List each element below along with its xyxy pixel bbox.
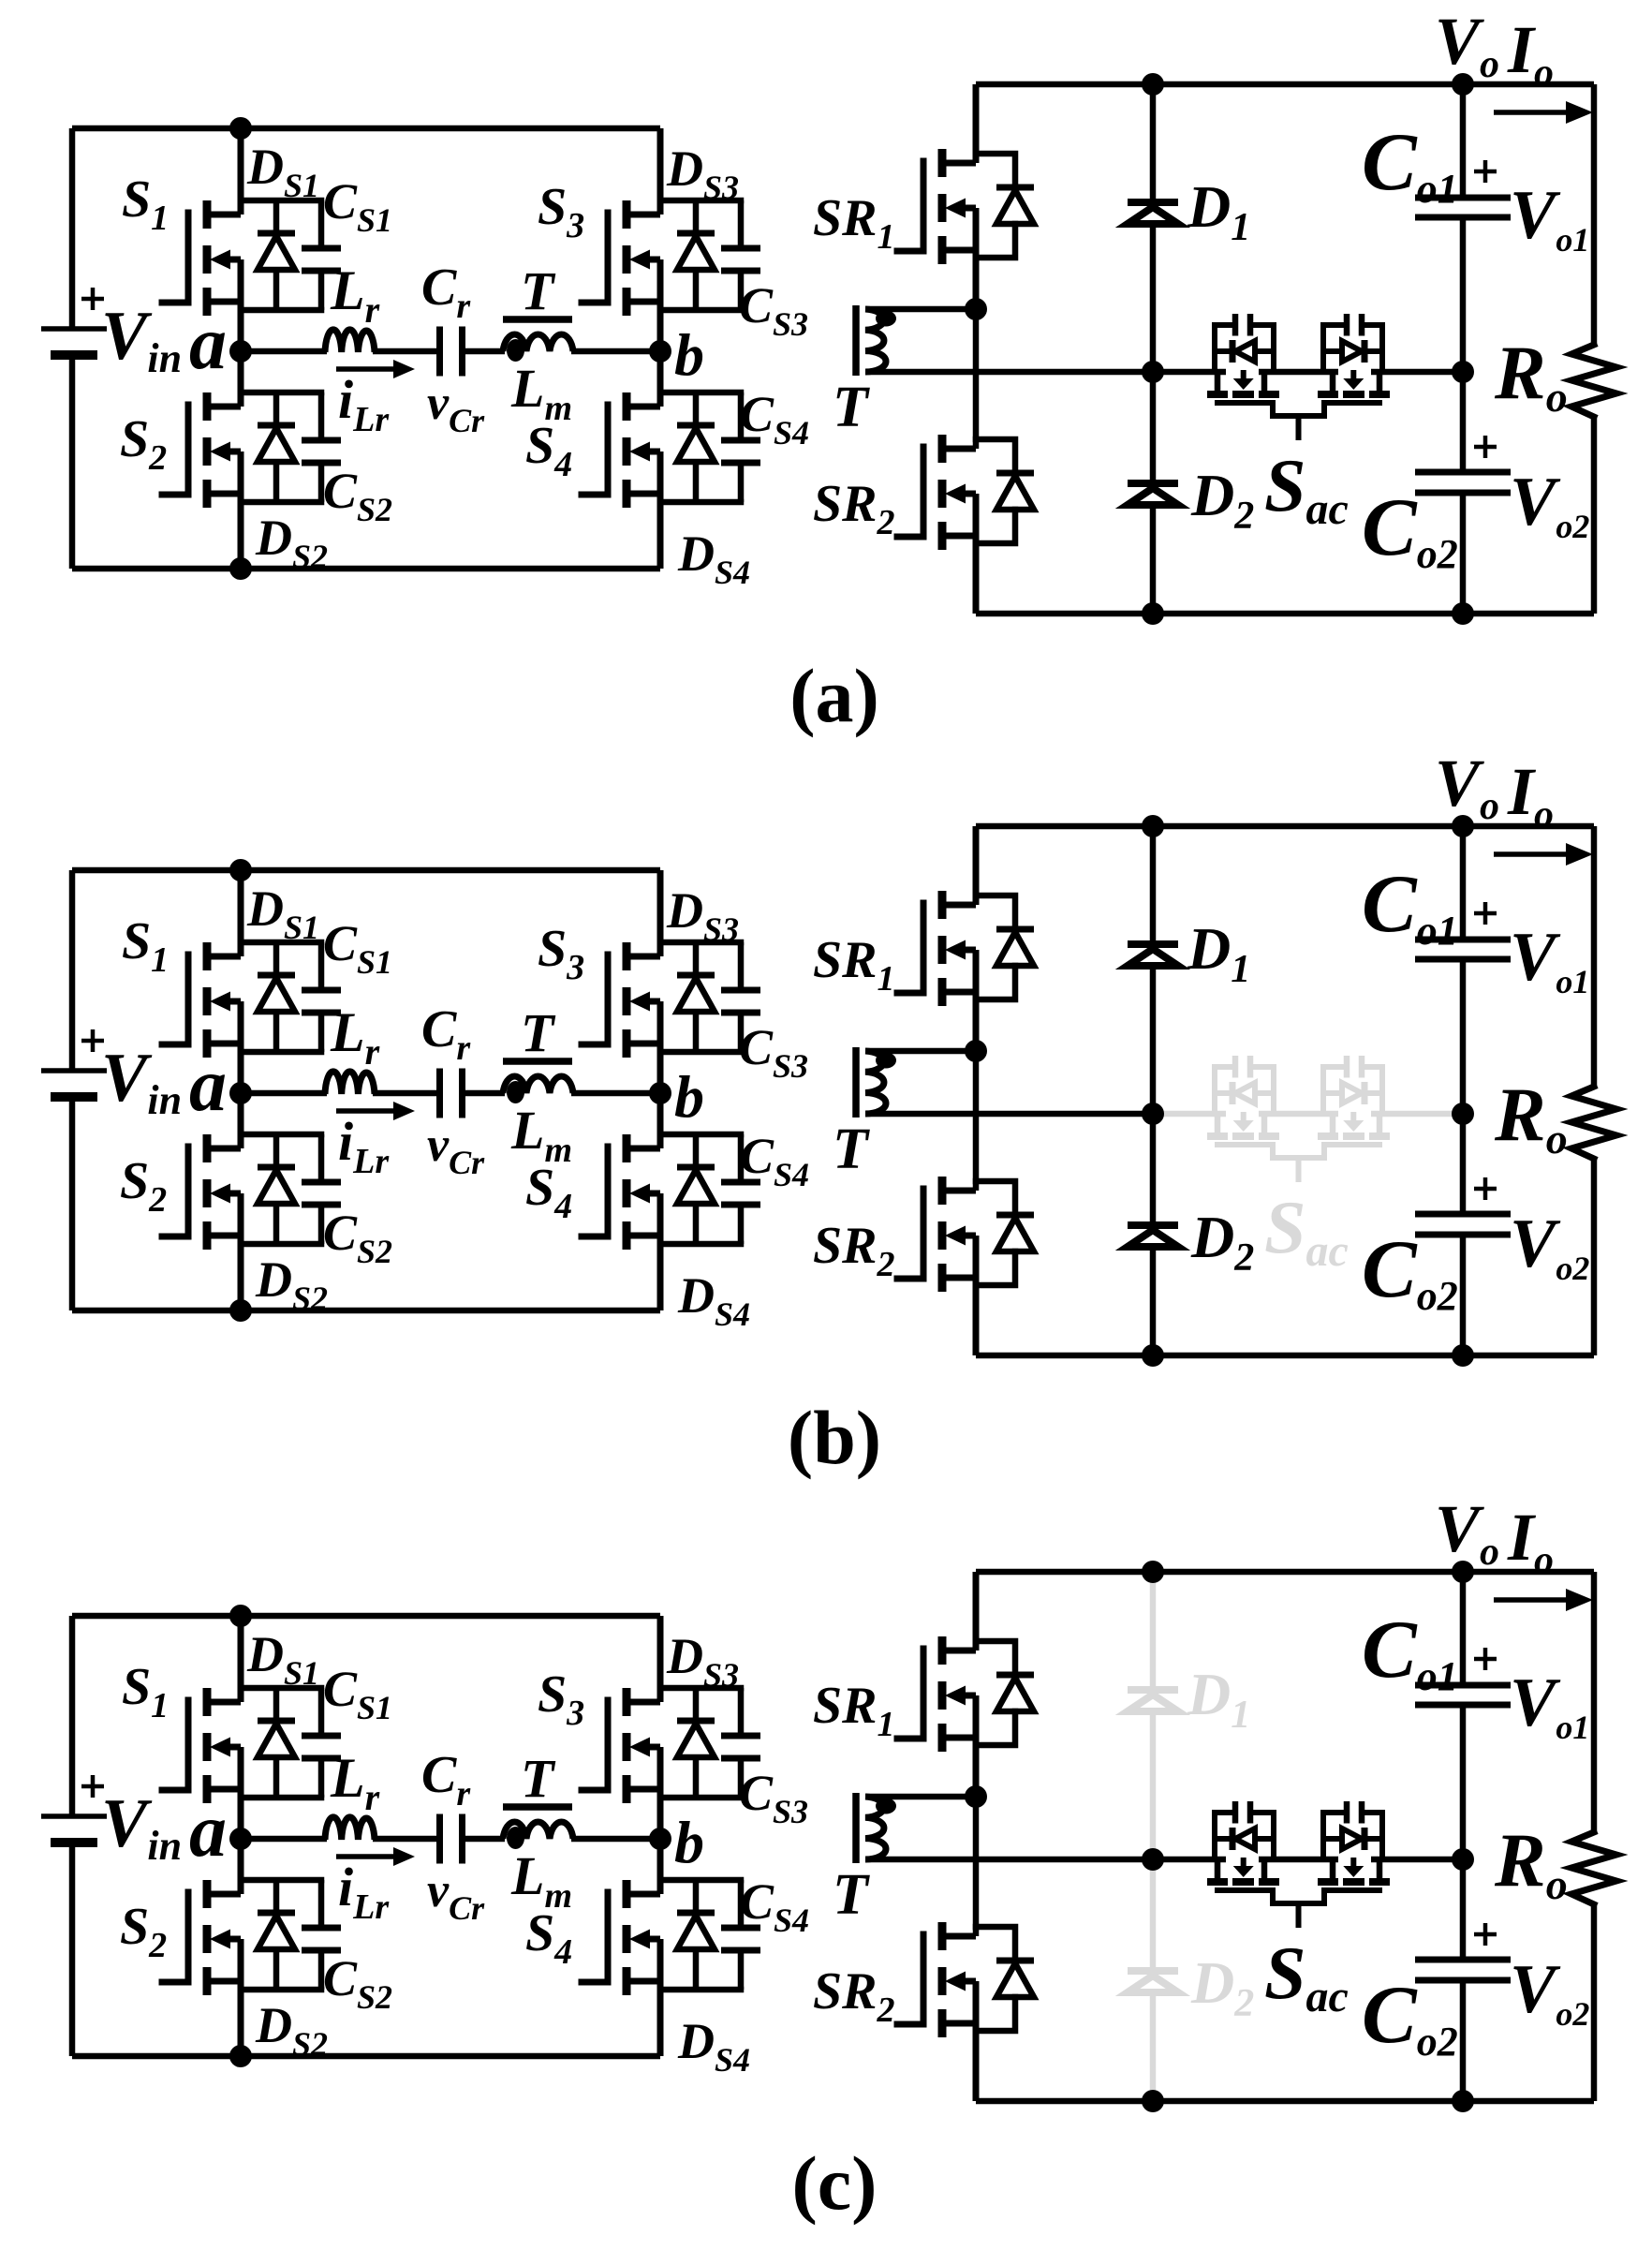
diode body of SR2 bbox=[976, 1927, 1015, 1961]
wire load bottom bbox=[1591, 1159, 1598, 1355]
node top rail diode junction bbox=[1142, 73, 1164, 96]
diode DS4 / capacitor CS4 top wire bbox=[660, 390, 741, 396]
diode D1 bbox=[1128, 199, 1178, 206]
node b bbox=[649, 1828, 671, 1850]
wire Co1 to midpoint bbox=[1460, 1705, 1467, 1960]
diode DS2 / capacitor CS2 bottom wire bbox=[241, 1987, 321, 1993]
diode D1 bbox=[1128, 940, 1178, 948]
wire SR1 source to winding bbox=[973, 1695, 980, 1797]
arrow Io bbox=[1494, 1597, 1569, 1603]
wire S2 source to bottom rail bbox=[238, 1939, 244, 2056]
inductor Lm magnetizing bbox=[503, 1076, 573, 1093]
node bottom rail diode junction bbox=[1142, 1344, 1164, 1367]
capacitor CS2 bbox=[318, 392, 325, 438]
plus sign Vo2 polarity bbox=[1474, 436, 1497, 458]
transistor S1 body arrow bbox=[210, 250, 230, 270]
transistor S4 gate lead bbox=[582, 405, 608, 495]
wire battery positive lead bbox=[69, 128, 76, 329]
wire load top bbox=[1591, 1572, 1598, 1832]
wire battery positive lead bbox=[69, 870, 76, 1071]
inductor Lr bbox=[325, 330, 375, 352]
node mid rail diode junction bbox=[1142, 1848, 1164, 1871]
transistor S1 drain lead bbox=[205, 954, 241, 960]
node top rail diode junction bbox=[1142, 815, 1164, 837]
wire primary top rail bbox=[72, 1613, 660, 1620]
transistor S4 source lead bbox=[625, 1233, 660, 1239]
transistor SR2 source lead bbox=[940, 1275, 976, 1281]
transistor SR2 drain lead bbox=[940, 1933, 976, 1940]
wire battery negative lead bbox=[69, 1843, 76, 2056]
diode DS1 / capacitor CS1 bottom wire bbox=[241, 307, 321, 314]
transistor SR2 channel bars bbox=[938, 1922, 947, 1950]
transistor S1 drain lead bbox=[205, 212, 241, 218]
wire S1 source to node a bbox=[238, 1747, 244, 1839]
wire node a to S2 drain bbox=[238, 1839, 244, 1894]
wire winding junction to SR2 drain bbox=[973, 1797, 980, 1936]
transistor S4 gate lead bbox=[582, 1147, 608, 1236]
wire secondary top rail bbox=[976, 81, 1594, 88]
wire S3 source to node b bbox=[657, 1001, 664, 1093]
inductor Lr bbox=[325, 1817, 375, 1840]
wire Co2 to bottom rail bbox=[1460, 1235, 1467, 1355]
transistor SR1 channel bars bbox=[938, 1636, 947, 1665]
diode DS2 / capacitor CS2 top wire bbox=[241, 390, 321, 396]
arrow iLr bbox=[336, 1854, 400, 1859]
wire battery negative lead bbox=[69, 355, 76, 569]
capacitor CS3 bbox=[738, 1688, 745, 1734]
wire S3 source to node b bbox=[657, 1747, 664, 1839]
transistor SR2 channel bars bbox=[938, 1177, 947, 1205]
battery Vin bbox=[41, 326, 107, 332]
wire Sac to output midpoint bbox=[1371, 1111, 1463, 1118]
diode DS4 bbox=[693, 1880, 700, 1913]
diode DS4 bbox=[693, 1134, 700, 1167]
wire diode junction to Sac bbox=[1153, 1857, 1226, 1863]
wire S2 source to bottom rail bbox=[238, 1193, 244, 1310]
wire SR1 drain bbox=[973, 84, 980, 163]
transistor S4 channel bars bbox=[623, 1880, 631, 1908]
transistor S1 body arrow bbox=[210, 992, 230, 1012]
resistor Ro bbox=[1571, 1832, 1616, 1904]
wire winding junction to SR2 drain bbox=[973, 309, 980, 449]
diode D1 bbox=[1128, 1686, 1178, 1694]
transistor S3 source lead bbox=[625, 299, 660, 305]
transistor SR2 channel bars bbox=[938, 435, 947, 463]
diode DS4 / capacitor CS4 bottom wire bbox=[660, 1241, 741, 1248]
wire secondary bottom rail bbox=[976, 2098, 1594, 2105]
wire S4 source to bottom rail bbox=[657, 1193, 664, 1310]
wire load top bbox=[1591, 826, 1598, 1087]
transistor SR1 source lead bbox=[940, 989, 976, 996]
plus sign Vin polarity bbox=[81, 1029, 104, 1052]
wire node a to S2 drain bbox=[238, 351, 244, 407]
transistor S4 channel bars bbox=[623, 1134, 631, 1162]
plus sign Vo1 polarity bbox=[1474, 902, 1497, 925]
transistor S4 drain lead bbox=[625, 1146, 660, 1152]
svg-text:a: a bbox=[189, 1790, 227, 1873]
diode DS4 / capacitor CS4 top wire bbox=[660, 1132, 741, 1138]
wire load top bbox=[1591, 84, 1598, 345]
transistor S4 source lead bbox=[625, 1978, 660, 1985]
inductor Lm magnetizing bbox=[503, 334, 573, 351]
capacitor Co1 bbox=[1415, 195, 1511, 201]
wire Sac to output midpoint bbox=[1371, 369, 1463, 376]
capacitor Cr bbox=[436, 1814, 443, 1864]
transistor S2 drain lead bbox=[205, 1891, 241, 1898]
plus sign Vin polarity bbox=[81, 1775, 104, 1798]
wire SR1 source to winding bbox=[973, 208, 980, 309]
transformer T primary core bar bbox=[503, 1803, 572, 1811]
node mid rail diode junction bbox=[1142, 1103, 1164, 1125]
wire secondary top rail bbox=[976, 823, 1594, 830]
capacitor Cr bbox=[436, 327, 443, 377]
capacitor CS1 bbox=[318, 1688, 325, 1734]
transistor SR1 body arrow bbox=[945, 1686, 966, 1706]
wire SR1 drain bbox=[973, 826, 980, 905]
node top rail diode junction bbox=[1142, 1561, 1164, 1583]
wire SR1 drain bbox=[973, 1572, 980, 1650]
wire Lm to node b bbox=[571, 1836, 660, 1843]
svg-text:a: a bbox=[189, 1044, 227, 1127]
transistor S3 channel bars bbox=[623, 200, 631, 229]
transistor SR2 body arrow bbox=[945, 1226, 966, 1246]
diode DS2 / capacitor CS2 bottom wire bbox=[241, 1241, 321, 1248]
wire diode leg lower bbox=[1150, 1247, 1157, 1355]
svg-text:b: b bbox=[674, 321, 704, 388]
wire secondary winding top lead bbox=[865, 1048, 976, 1055]
capacitor Co1 bbox=[1415, 1682, 1511, 1689]
diode DS1 / capacitor CS1 bottom wire bbox=[241, 1795, 321, 1801]
node b bbox=[649, 1082, 671, 1104]
node mid rail output junction bbox=[1452, 361, 1474, 383]
diode body of SR1 bbox=[976, 154, 1015, 187]
transistor SR1 gate lead bbox=[897, 903, 923, 993]
transistor S2 gate lead bbox=[162, 405, 188, 495]
transistor S3 gate lead bbox=[582, 1700, 608, 1790]
wire node a to S2 drain bbox=[238, 1093, 244, 1148]
wire S2 source to bottom rail bbox=[238, 451, 244, 569]
diode DS3 / capacitor CS3 top wire bbox=[660, 198, 741, 204]
transistor S3 body arrow bbox=[629, 250, 650, 270]
wire Sac interconnect bbox=[1259, 1857, 1338, 1863]
diode DS2 / capacitor CS2 top wire bbox=[241, 1132, 321, 1138]
transformer T primary core bar bbox=[503, 316, 572, 323]
wire Co1 top lead bbox=[1460, 84, 1467, 198]
transistor S3 channel bars bbox=[623, 942, 631, 970]
capacitor CS3 bbox=[738, 942, 745, 988]
wire secondary winding bottom to diode junction bbox=[865, 1857, 1153, 1863]
switch Sac right MOSFET bbox=[1364, 1067, 1382, 1114]
svg-text:a: a bbox=[189, 303, 227, 385]
capacitor CS2 bbox=[318, 1134, 325, 1180]
svg-text:T: T bbox=[521, 1002, 556, 1063]
wire node a to Lr bbox=[241, 1090, 327, 1097]
wire S1 drain bbox=[238, 1616, 244, 1702]
transistor S3 channel bars bbox=[623, 1688, 631, 1716]
wire S3 drain bbox=[657, 870, 664, 956]
transistor SR1 channel bars bbox=[938, 149, 947, 177]
battery Vin bbox=[41, 1813, 107, 1819]
wire secondary winding bottom to diode junction bbox=[865, 1111, 1153, 1118]
diode DS4 / capacitor CS4 top wire bbox=[660, 1877, 741, 1884]
transistor S1 channel bars bbox=[203, 942, 212, 970]
transistor S2 source lead bbox=[205, 491, 241, 497]
wire Cr to transformer bbox=[465, 348, 505, 355]
transistor S1 drain lead bbox=[205, 1699, 241, 1706]
transistor SR2 drain lead bbox=[940, 1188, 976, 1194]
transistor S3 drain lead bbox=[625, 1699, 660, 1706]
arrow Io bbox=[1494, 110, 1569, 115]
wire Lm to node b bbox=[571, 348, 660, 355]
node bottom rail output junction bbox=[1452, 2090, 1474, 2112]
wire diode leg upper bbox=[1150, 84, 1157, 202]
diode DS3 / capacitor CS3 bottom wire bbox=[660, 1795, 741, 1801]
wire Lr to Cr bbox=[373, 348, 437, 355]
capacitor CS4 bbox=[738, 1880, 745, 1926]
switch Sac gate stub bbox=[1296, 1903, 1302, 1928]
transistor SR1 gate lead bbox=[897, 161, 923, 251]
diode DS3 / capacitor CS3 bottom wire bbox=[660, 1049, 741, 1056]
diode DS3 / capacitor CS3 top wire bbox=[660, 1685, 741, 1692]
node b bbox=[649, 340, 671, 363]
node a bbox=[229, 1082, 252, 1104]
arrow iLr bbox=[336, 1108, 400, 1114]
transistor S2 drain lead bbox=[205, 404, 241, 410]
svg-text:T: T bbox=[833, 1863, 870, 1927]
wire winding junction to SR2 drain bbox=[973, 1051, 980, 1191]
diode DS2 bbox=[273, 392, 280, 425]
transistor SR1 body arrow bbox=[945, 199, 966, 218]
plus sign Vo1 polarity bbox=[1474, 1648, 1497, 1670]
transistor SR2 drain lead bbox=[940, 446, 976, 452]
transistor S4 source lead bbox=[625, 491, 660, 497]
wire SR2 source to bottom rail bbox=[973, 1236, 980, 1355]
switch Sac right MOSFET bbox=[1364, 325, 1382, 372]
plus sign Vin polarity bbox=[81, 288, 104, 310]
transistor SR1 source lead bbox=[940, 1735, 976, 1741]
wire SR1 source to winding bbox=[973, 950, 980, 1051]
svg-text:b: b bbox=[674, 1063, 704, 1130]
wire secondary winding top lead bbox=[865, 1794, 976, 1800]
diode DS3 bbox=[693, 1688, 700, 1721]
wire secondary bottom rail bbox=[976, 611, 1594, 617]
transistor S1 channel bars bbox=[203, 1688, 212, 1716]
wire battery positive lead bbox=[69, 1616, 76, 1816]
transistor S2 gate lead bbox=[162, 1147, 188, 1236]
wire diode leg lower bbox=[1150, 1992, 1157, 2101]
transistor S1 gate lead bbox=[162, 955, 188, 1044]
capacitor CS2 bbox=[318, 1880, 325, 1926]
node transformer primary polarity dot bbox=[507, 1081, 524, 1103]
wire Co2 to bottom rail bbox=[1460, 1980, 1467, 2101]
diode body of SR1 bbox=[976, 1641, 1015, 1675]
wire S3 source to node b bbox=[657, 259, 664, 351]
switch Sac right MOSFET bbox=[1364, 1813, 1382, 1859]
wire Sac to output midpoint bbox=[1371, 1857, 1463, 1863]
node primary top junction bbox=[229, 1605, 252, 1627]
wire node b to S4 drain bbox=[657, 1839, 664, 1894]
wire S3 drain bbox=[657, 1616, 664, 1702]
transistor S2 gate lead bbox=[162, 1892, 188, 1982]
switch Sac left MOSFET bbox=[1215, 1813, 1233, 1859]
arrow iLr bbox=[336, 366, 400, 372]
transistor S1 gate lead bbox=[162, 213, 188, 303]
diode DS3 bbox=[693, 200, 700, 233]
transistor SR2 source lead bbox=[940, 533, 976, 540]
svg-text:T: T bbox=[521, 1748, 556, 1809]
node a bbox=[229, 340, 252, 363]
wire load bottom bbox=[1591, 1904, 1598, 2101]
transistor S1 source lead bbox=[205, 1041, 241, 1047]
wire Co2 to bottom rail bbox=[1460, 493, 1467, 614]
wire SR2 source to bottom rail bbox=[973, 494, 980, 614]
capacitor CS3 bbox=[738, 200, 745, 246]
transistor SR1 drain lead bbox=[940, 902, 976, 909]
transformer T secondary core bar bbox=[852, 305, 860, 376]
transistor SR1 source lead bbox=[940, 247, 976, 254]
wire Sac interconnect bbox=[1259, 1111, 1338, 1118]
wire diode leg upper bbox=[1150, 826, 1157, 944]
transistor SR2 gate lead bbox=[897, 1189, 923, 1279]
svg-text:(c): (c) bbox=[791, 2140, 877, 2226]
node mid rail output junction bbox=[1452, 1103, 1474, 1125]
diode DS2 bbox=[273, 1880, 280, 1913]
transistor S4 body arrow bbox=[629, 1184, 650, 1204]
transistor S4 channel bars bbox=[623, 392, 631, 421]
transformer T secondary core bar bbox=[852, 1047, 860, 1118]
svg-text:T: T bbox=[833, 376, 870, 439]
diode DS2 / capacitor CS2 bottom wire bbox=[241, 499, 321, 506]
transistor SR2 gate lead bbox=[897, 1934, 923, 2024]
transistor S4 body arrow bbox=[629, 1930, 650, 1949]
transistor SR2 body arrow bbox=[945, 1972, 966, 1991]
transformer T secondary core bar bbox=[852, 1793, 860, 1863]
diode DS3 / capacitor CS3 bottom wire bbox=[660, 307, 741, 314]
wire secondary winding top lead bbox=[865, 306, 976, 313]
diode DS3 / capacitor CS3 top wire bbox=[660, 940, 741, 946]
transistor SR1 drain lead bbox=[940, 160, 976, 167]
inductor Lr bbox=[325, 1072, 375, 1094]
transistor S3 source lead bbox=[625, 1041, 660, 1047]
transistor S2 source lead bbox=[205, 1233, 241, 1239]
transistor S1 source lead bbox=[205, 1786, 241, 1793]
wire node a to Lr bbox=[241, 348, 327, 355]
wire S4 source to bottom rail bbox=[657, 1939, 664, 2056]
node bottom rail diode junction bbox=[1142, 2090, 1164, 2112]
diode D2 bbox=[1128, 1221, 1178, 1229]
wire primary top rail bbox=[72, 126, 660, 132]
plus sign Vo1 polarity bbox=[1474, 160, 1497, 183]
transistor S3 source lead bbox=[625, 1786, 660, 1793]
wire node a to Lr bbox=[241, 1836, 327, 1843]
plus sign Vo2 polarity bbox=[1474, 1923, 1497, 1946]
transformer T primary core bar bbox=[503, 1058, 572, 1065]
wire node b to S4 drain bbox=[657, 1093, 664, 1148]
capacitor Co1 bbox=[1415, 937, 1511, 943]
capacitor Co2 bbox=[1415, 1957, 1511, 1963]
diode DS1 / capacitor CS1 top wire bbox=[241, 940, 321, 946]
node transformer primary polarity dot bbox=[507, 1827, 524, 1849]
diode DS1 bbox=[273, 1688, 280, 1721]
node bottom rail output junction bbox=[1452, 602, 1474, 625]
diode body of SR1 bbox=[976, 896, 1015, 929]
transistor SR2 gate lead bbox=[897, 447, 923, 537]
node primary top junction bbox=[229, 859, 252, 881]
diode body of SR2 bbox=[976, 439, 1015, 473]
diode D2 bbox=[1128, 1967, 1178, 1975]
wire diode junction to Sac bbox=[1153, 1111, 1226, 1118]
svg-text:T: T bbox=[521, 260, 556, 321]
capacitor CS1 bbox=[318, 942, 325, 988]
node secondary winding polarity dot bbox=[876, 1053, 896, 1069]
transistor S3 drain lead bbox=[625, 954, 660, 960]
switch Sac left MOSFET bbox=[1215, 1067, 1233, 1114]
svg-text:(b): (b) bbox=[788, 1395, 881, 1480]
wire diode junction to Sac bbox=[1153, 369, 1226, 376]
battery Vin bbox=[41, 1068, 107, 1073]
wire secondary top rail bbox=[976, 1569, 1594, 1576]
diode D2 bbox=[1128, 480, 1178, 487]
wire primary bottom rail bbox=[72, 2053, 660, 2060]
transistor S2 channel bars bbox=[203, 1134, 212, 1162]
diode DS4 bbox=[693, 392, 700, 425]
node winding top junction bbox=[965, 298, 987, 320]
svg-text:b: b bbox=[674, 1809, 704, 1875]
wire Co1 to midpoint bbox=[1460, 959, 1467, 1214]
wire S1 source to node a bbox=[238, 259, 244, 351]
capacitor CS1 bbox=[318, 200, 325, 246]
diode DS2 / capacitor CS2 top wire bbox=[241, 1877, 321, 1884]
node primary top junction bbox=[229, 117, 252, 140]
wire Lr to Cr bbox=[373, 1090, 437, 1097]
node mid rail output junction bbox=[1452, 1848, 1474, 1871]
wire secondary bottom rail bbox=[976, 1353, 1594, 1359]
wire diode leg lower bbox=[1150, 505, 1157, 614]
capacitor CS4 bbox=[738, 392, 745, 438]
diode DS1 / capacitor CS1 bottom wire bbox=[241, 1049, 321, 1056]
inductor T secondary winding bbox=[865, 1051, 886, 1114]
diode DS2 bbox=[273, 1134, 280, 1167]
wire Lm to node b bbox=[571, 1090, 660, 1097]
transistor S2 body arrow bbox=[210, 1184, 230, 1204]
transistor S3 drain lead bbox=[625, 212, 660, 218]
arrow Io bbox=[1494, 851, 1569, 857]
wire Co1 top lead bbox=[1460, 1572, 1467, 1685]
switch Sac gate stub bbox=[1296, 1158, 1302, 1182]
transistor S2 channel bars bbox=[203, 392, 212, 421]
node primary bottom junction bbox=[229, 1299, 252, 1322]
node bottom rail diode junction bbox=[1142, 602, 1164, 625]
diode DS3 bbox=[693, 942, 700, 975]
transistor SR1 channel bars bbox=[938, 891, 947, 919]
wire S1 drain bbox=[238, 128, 244, 215]
plus sign Vo2 polarity bbox=[1474, 1177, 1497, 1200]
transistor S3 body arrow bbox=[629, 1738, 650, 1757]
capacitor Co2 bbox=[1415, 1211, 1511, 1218]
transistor S4 drain lead bbox=[625, 1891, 660, 1898]
wire diode leg middle bbox=[1150, 224, 1157, 483]
inductor Lm magnetizing bbox=[503, 1822, 573, 1839]
wire node b to S4 drain bbox=[657, 351, 664, 407]
transistor SR2 body arrow bbox=[945, 484, 966, 504]
transistor S3 body arrow bbox=[629, 992, 650, 1012]
capacitor Co2 bbox=[1415, 469, 1511, 476]
node winding top junction bbox=[965, 1040, 987, 1062]
node secondary winding polarity dot bbox=[876, 311, 896, 327]
wire Cr to transformer bbox=[465, 1836, 505, 1843]
wire Co1 to midpoint bbox=[1460, 217, 1467, 472]
diode DS1 / capacitor CS1 top wire bbox=[241, 1685, 321, 1692]
